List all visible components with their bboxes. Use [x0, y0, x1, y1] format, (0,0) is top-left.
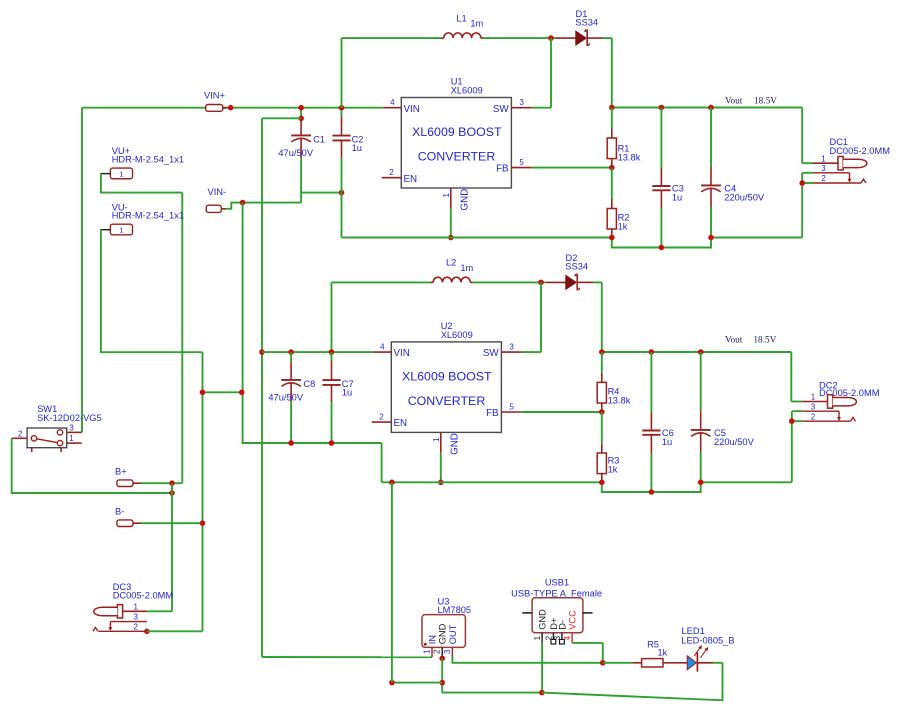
wire VU- down-right — [101, 230, 203, 353]
svg-text:4: 4 — [563, 635, 572, 640]
svg-text:FB: FB — [486, 408, 499, 419]
label U1 — [451, 77, 483, 96]
node GND2 branch junction — [389, 480, 395, 486]
wire B+ horizontal — [142, 482, 173, 484]
header VU- — [100, 202, 184, 235]
resistor R1 — [607, 108, 640, 168]
node VU- link left — [200, 390, 206, 396]
svg-text:GND: GND — [438, 623, 448, 644]
pin U1 GND — [442, 188, 470, 211]
wire Vout2 rail — [602, 351, 792, 353]
node C5 top junction — [698, 349, 704, 355]
wire VIN+ carrier vertical — [261, 118, 263, 657]
wire L1 to D1 — [482, 37, 556, 39]
node R3 bottom junction — [599, 480, 605, 486]
svg-text:D-: D- — [557, 620, 567, 630]
wire Vout1 to DC1 — [802, 108, 812, 164]
wire DC3 pin1 to B+ — [147, 610, 172, 612]
capacitor C7 — [322, 352, 353, 443]
svg-text:L1: L1 — [456, 13, 466, 23]
net label VIN- — [206, 187, 226, 213]
svg-text:18.5V: 18.5V — [753, 336, 776, 346]
svg-text:47u/50V: 47u/50V — [278, 148, 313, 158]
svg-text:1: 1 — [133, 602, 138, 611]
op-amp U1 box — [401, 98, 511, 189]
pin U2 EN — [372, 412, 407, 429]
node DC3 pin2 junction — [144, 629, 150, 635]
pin U2 VIN — [373, 342, 410, 359]
node U3 GND junction — [439, 656, 445, 662]
pin USB1 VCC — [563, 610, 577, 643]
wire GND1 rail jog — [612, 238, 711, 248]
svg-text:1: 1 — [811, 393, 816, 402]
pin U3 IN — [423, 635, 438, 657]
wire GND2 top horizontal — [242, 442, 382, 444]
capacitor C4 — [701, 108, 765, 238]
wire GND2 rail — [382, 481, 602, 483]
svg-text:B-: B- — [115, 507, 124, 517]
wire GND branch vertical — [391, 482, 393, 682]
svg-text:1: 1 — [69, 434, 74, 443]
wire D2 anode stub — [546, 281, 566, 283]
wire Vout1 rail — [612, 107, 802, 109]
wire C1 bottom to C2 — [301, 192, 341, 194]
svg-text:XL6009 BOOST: XL6009 BOOST — [402, 370, 492, 384]
capacitor C1 — [278, 118, 325, 192]
diode D1 — [575, 9, 598, 45]
net label Vout2 — [725, 336, 777, 346]
wire VIN- vertical — [242, 203, 244, 443]
wire VIN+ branch horizontal — [262, 117, 301, 119]
connector USB1 — [511, 578, 602, 633]
svg-text:3: 3 — [509, 342, 514, 351]
node R1 top junction — [609, 105, 615, 111]
svg-text:4: 4 — [390, 98, 395, 107]
node C1 rail junction — [298, 105, 304, 111]
wire GND1 rail — [342, 237, 612, 239]
svg-text:1u: 1u — [342, 387, 352, 397]
node C8 bottom junction — [288, 440, 294, 446]
svg-text:EN: EN — [404, 174, 418, 185]
capacitor C8 — [268, 352, 315, 443]
diode D2 — [565, 253, 588, 289]
wire GND1 rail right — [711, 237, 802, 239]
node C7 bottom junction — [329, 440, 335, 446]
svg-text:C1: C1 — [313, 134, 325, 144]
svg-text:LED-0805_B: LED-0805_B — [681, 635, 734, 645]
node DC1 pin2 junction — [799, 180, 805, 186]
node R5 node junction — [600, 660, 606, 666]
pin USB1 D+ — [544, 618, 558, 644]
wire top rail left — [342, 37, 442, 39]
node C6 bottom junction — [649, 489, 655, 495]
svg-text:SS34: SS34 — [565, 262, 588, 272]
wire VIN- horizontal — [243, 202, 302, 204]
svg-text:1u: 1u — [352, 143, 362, 153]
wire B- horizontal — [142, 522, 203, 524]
pin USB1 GND — [533, 609, 547, 643]
svg-text:VIN: VIN — [394, 348, 410, 359]
resistor R3 — [597, 412, 619, 482]
node B+ junction — [169, 480, 175, 486]
svg-text:47u/50V: 47u/50V — [268, 393, 303, 403]
net label B+ — [115, 467, 142, 487]
node VIN- junction — [240, 200, 246, 206]
wire SW2 net vertical — [540, 282, 542, 352]
connector DC3 — [93, 582, 173, 632]
svg-text:CONVERTER: CONVERTER — [418, 149, 496, 163]
svg-text:HDR-M-2.54_1x1: HDR-M-2.54_1x1 — [112, 211, 184, 221]
wire GND2 drop — [381, 443, 383, 482]
svg-text:3: 3 — [821, 164, 826, 173]
svg-text:2: 2 — [18, 429, 23, 438]
wire VU+ vertical — [181, 193, 183, 484]
wire GND branch horizontal — [392, 682, 442, 684]
wire LED out — [713, 662, 722, 664]
resistor R5 — [632, 640, 672, 667]
node VIN+ port junction — [228, 105, 234, 111]
svg-text:2: 2 — [811, 413, 816, 422]
node U2 GND junction — [438, 480, 444, 486]
inductor L2 — [431, 258, 474, 283]
svg-text:XL6009: XL6009 — [451, 86, 483, 96]
wire D2 to Vout corner — [593, 281, 602, 283]
svg-text:EN: EN — [394, 418, 408, 429]
switch SW1 — [12, 404, 102, 452]
node U2 VIN rail junction — [259, 349, 265, 355]
svg-text:1k: 1k — [658, 647, 668, 657]
svg-text:3: 3 — [553, 635, 562, 640]
svg-text:VIN: VIN — [404, 104, 420, 115]
wire C7 to L2 rail — [331, 282, 333, 352]
svg-text:3: 3 — [519, 98, 524, 107]
node DC2 pin2 junction — [789, 418, 795, 424]
op-amp U2 box — [391, 342, 501, 433]
wire L2 to D2 — [472, 281, 546, 283]
node C6 top junction — [649, 349, 655, 355]
wire Vout2 to DC2 — [791, 352, 802, 402]
svg-text:1u: 1u — [672, 193, 682, 203]
wire VIN+ rail — [82, 107, 383, 109]
svg-text:DC005-2.0MM: DC005-2.0MM — [113, 591, 173, 601]
wire D1 to Vout corner — [603, 37, 612, 39]
node C3 top junction — [659, 105, 665, 111]
pin U3 OUT — [443, 624, 458, 656]
svg-text:XL6009: XL6009 — [441, 330, 473, 340]
node C1 branch junction — [298, 116, 304, 122]
node FB1 junction — [609, 165, 615, 171]
svg-text:5: 5 — [519, 158, 524, 167]
node B+ lower junction — [169, 490, 175, 496]
svg-text:5: 5 — [509, 402, 514, 411]
node R2 bottom junction — [609, 235, 615, 241]
svg-text:13.8k: 13.8k — [618, 153, 641, 163]
node VU- link right — [239, 390, 245, 396]
wire DC1 return vertical — [801, 173, 803, 238]
pin USB1 D- — [553, 620, 567, 644]
svg-text:IN: IN — [427, 635, 437, 644]
svg-text:1: 1 — [442, 193, 451, 198]
svg-text:2: 2 — [433, 649, 442, 654]
svg-text:HDR-M-2.54_1x1: HDR-M-2.54_1x1 — [112, 155, 184, 165]
svg-text:FB: FB — [496, 164, 509, 175]
wire U2 VIN rail — [262, 351, 373, 353]
node GND net junction — [439, 680, 445, 686]
wire USB GND vertical — [541, 643, 543, 693]
svg-text:VIN-: VIN- — [208, 187, 227, 197]
wire U3 IN horizontal — [262, 656, 432, 658]
wire U3 OUT down-right — [452, 657, 602, 663]
wire DC2 return vertical — [791, 411, 793, 482]
node C3 bottom junction — [659, 245, 665, 251]
svg-text:4: 4 — [380, 342, 385, 351]
svg-text:18.5V: 18.5V — [754, 97, 777, 107]
wire D1 output vertical — [611, 38, 613, 107]
svg-text:VIN+: VIN+ — [204, 90, 225, 100]
wire U2 GND to rail — [440, 453, 442, 483]
wire LED return — [542, 663, 723, 701]
svg-text:SW: SW — [493, 104, 510, 115]
pin U1 SW — [493, 98, 532, 115]
wire D1 cathode stub — [587, 37, 603, 39]
label U2 — [441, 321, 473, 340]
wire D1 anode stub — [556, 37, 576, 39]
wire GND2 rail jog — [602, 482, 701, 492]
resistor R4 — [597, 352, 630, 412]
svg-text:220u/50V: 220u/50V — [724, 193, 765, 203]
wire VU+ to B+ — [172, 482, 182, 484]
node C8 rail junction — [288, 349, 294, 355]
wire GND2 rail right — [701, 481, 792, 483]
svg-text:SK-12D02-VG5: SK-12D02-VG5 — [37, 413, 102, 423]
svg-text:XL6009 BOOST: XL6009 BOOST — [412, 125, 502, 139]
node FB2 junction — [599, 409, 605, 415]
svg-text:3: 3 — [69, 423, 74, 432]
wire FB1 horizontal — [532, 167, 612, 169]
wire VCC horizontal — [572, 642, 603, 644]
capacitor C3 — [652, 108, 683, 248]
node C2 bottom junction — [339, 190, 345, 196]
wire VCC down — [602, 643, 604, 663]
wire SW1 pin2 down — [12, 438, 172, 493]
wire B+ vertical — [171, 483, 173, 611]
node D2 anode junction — [538, 280, 544, 286]
svg-text:13.8k: 13.8k — [608, 396, 631, 406]
pin U1 VIN — [383, 98, 420, 115]
wire C2 to top rail — [341, 38, 343, 108]
svg-text:OUT: OUT — [448, 624, 458, 644]
svg-text:USB1: USB1 — [545, 578, 569, 588]
svg-text:3: 3 — [811, 402, 816, 411]
net label VIN+ — [204, 90, 227, 111]
capacitor C6 — [642, 352, 673, 492]
svg-text:GND: GND — [538, 609, 548, 630]
node C4 bottom junction — [708, 235, 714, 241]
wire DC3 pin2 to B- — [147, 630, 203, 632]
pin U2 SW — [483, 342, 522, 359]
node R4 top junction — [599, 349, 605, 355]
pin U1 EN — [382, 168, 417, 185]
wire U1 GND to rail — [450, 208, 452, 237]
wire SW2 pin to vertical — [522, 351, 541, 353]
svg-text:1: 1 — [119, 169, 123, 178]
wire VU+ down-right — [101, 174, 182, 193]
svg-text:1k: 1k — [608, 465, 618, 475]
wire L2 rail left — [332, 281, 432, 283]
wire VIN- port jog — [226, 203, 242, 209]
wire VU-/B- vertical — [202, 352, 204, 631]
wire D2 cathode stub — [577, 281, 593, 283]
wire GND to USB horizontal — [442, 692, 542, 694]
wire SW pin to vertical — [532, 107, 551, 109]
svg-text:1u: 1u — [662, 437, 672, 447]
node C7 rail junction — [329, 349, 335, 355]
svg-text:3: 3 — [133, 613, 138, 622]
wire C1 bottom jog down — [300, 193, 302, 203]
svg-text:Vout: Vout — [725, 97, 743, 107]
svg-text:1: 1 — [119, 226, 123, 235]
svg-text:3: 3 — [443, 649, 452, 654]
svg-text:220u/50V: 220u/50V — [714, 437, 755, 447]
pin U3 GND — [433, 623, 448, 658]
svg-text:B+: B+ — [115, 467, 127, 477]
wire FB2 horizontal — [522, 411, 602, 413]
led LED1 — [672, 626, 734, 672]
svg-text:1: 1 — [821, 154, 826, 163]
node D1 anode junction — [548, 35, 554, 41]
node USB GND junction — [539, 690, 545, 696]
pin U1 FB — [496, 158, 532, 175]
header VU+ — [100, 146, 184, 179]
wire left rail vertical — [81, 108, 83, 433]
inductor L1 — [442, 13, 484, 38]
svg-text:1: 1 — [432, 437, 441, 442]
svg-text:1k: 1k — [618, 222, 628, 232]
svg-text:GND: GND — [450, 433, 461, 455]
svg-text:1m: 1m — [460, 263, 473, 273]
capacitor C2 — [332, 108, 363, 193]
connector DC1 — [802, 137, 890, 183]
label U1 title — [412, 125, 502, 163]
svg-text:LM7805: LM7805 — [438, 605, 472, 615]
svg-text:2: 2 — [379, 412, 384, 421]
node B- junction — [200, 520, 206, 526]
node C5 bottom junction — [698, 480, 704, 486]
svg-text:1m: 1m — [470, 19, 483, 29]
svg-text:VCC: VCC — [568, 610, 578, 630]
regulator U3 box — [422, 615, 465, 648]
wire VU- to VIN- link — [203, 391, 242, 393]
svg-text:1: 1 — [423, 649, 432, 654]
pin U2 FB — [486, 402, 522, 419]
node U1 GND junction — [448, 235, 454, 241]
svg-text:SW: SW — [483, 348, 500, 359]
wire SW1 net vertical — [550, 38, 552, 108]
node C2 rail junction — [339, 105, 345, 111]
wire R5 left — [603, 662, 632, 664]
resistor R2 — [607, 168, 629, 238]
svg-text:GND: GND — [460, 189, 471, 211]
label U2 title — [402, 370, 492, 408]
node GND branch corner — [389, 680, 395, 686]
svg-text:2: 2 — [389, 168, 394, 177]
svg-text:CONVERTER: CONVERTER — [408, 394, 486, 408]
capacitor C5 — [691, 352, 755, 482]
net label B- — [115, 507, 142, 527]
svg-text:USB-TYPE A_Female: USB-TYPE A_Female — [511, 588, 602, 598]
svg-text:2: 2 — [821, 174, 826, 183]
net label Vout1 — [725, 97, 777, 107]
wire D2 output vertical — [601, 282, 603, 352]
svg-text:1: 1 — [533, 635, 542, 640]
svg-text:DC005-2.0MM: DC005-2.0MM — [830, 146, 890, 156]
wire U3 GND vertical — [441, 658, 443, 692]
svg-text:Vout: Vout — [725, 336, 743, 346]
svg-text:SS34: SS34 — [575, 17, 598, 27]
svg-text:2: 2 — [133, 623, 138, 632]
connector DC2 — [792, 381, 880, 422]
wire C2 to bottom rail — [341, 193, 343, 238]
svg-text:L2: L2 — [446, 258, 456, 268]
svg-text:C8: C8 — [303, 379, 315, 389]
wire C1 top jog — [300, 108, 302, 119]
node C4 top junction — [708, 105, 714, 111]
pin U2 GND — [432, 432, 460, 455]
label U3 — [438, 596, 472, 615]
